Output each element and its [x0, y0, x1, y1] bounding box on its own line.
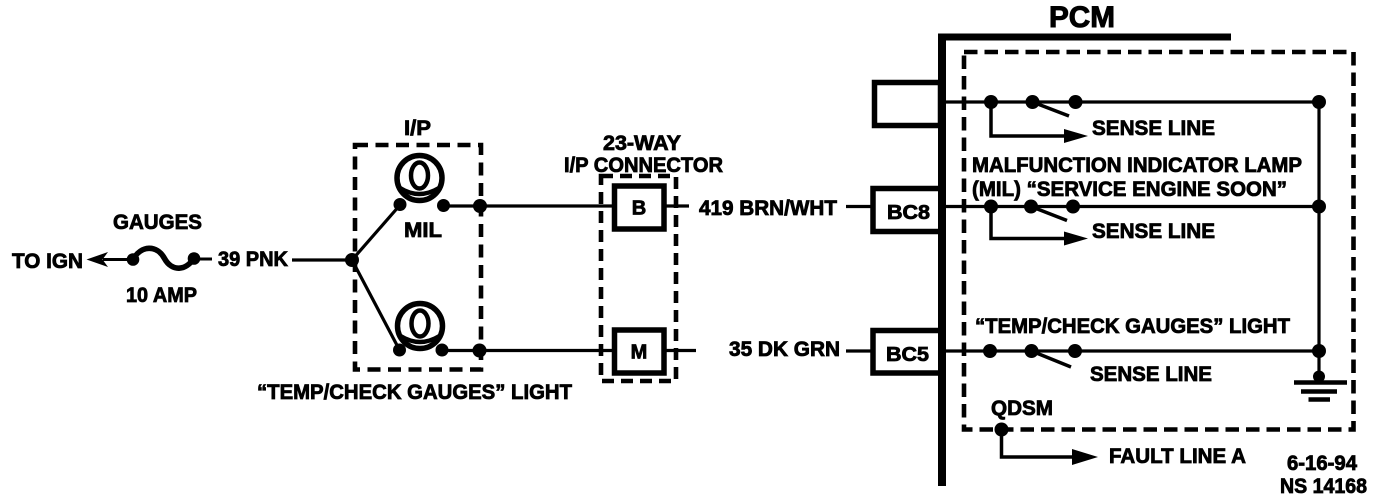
wire row 2 sense line — [942, 205, 1319, 208]
svg-text:FAULT LINE A: FAULT LINE A — [1109, 445, 1246, 468]
PCM inner dashed box — [964, 52, 1354, 430]
23-way I/P connector dashed box — [601, 176, 676, 381]
wire to BC8 — [846, 205, 872, 208]
wire row 3 sense line — [941, 349, 1319, 352]
svg-text:NS 14168: NS 14168 — [1280, 475, 1367, 498]
svg-text:“TEMP/CHECK GAUGES” LIGHT: “TEMP/CHECK GAUGES” LIGHT — [975, 315, 1290, 338]
arrow to IGN — [103, 258, 134, 261]
svg-text:SENSE LINE: SENSE LINE — [1090, 363, 1212, 386]
svg-text:M: M — [631, 342, 648, 364]
arrow sense line 2 — [991, 207, 1076, 239]
node on I/P box edge top — [473, 199, 487, 213]
svg-text:419 BRN/WHT: 419 BRN/WHT — [699, 197, 837, 220]
lamp MIL — [397, 156, 442, 201]
PCM case border top — [938, 34, 1231, 41]
svg-text:I/P: I/P — [404, 117, 431, 140]
node row1 a — [984, 95, 998, 109]
node row1 right — [1312, 95, 1326, 109]
node row1 c — [1069, 95, 1083, 109]
svg-text:GAUGES: GAUGES — [113, 211, 202, 234]
wire stub from B — [664, 204, 689, 207]
svg-text:TO IGN: TO IGN — [12, 250, 83, 273]
PCM case border left — [938, 34, 946, 487]
svg-text:SENSE LINE: SENSE LINE — [1092, 117, 1215, 140]
svg-text:BC5: BC5 — [886, 344, 929, 366]
svg-text:(MIL) “SERVICE ENGINE SOON”: (MIL) “SERVICE ENGINE SOON” — [972, 178, 1287, 201]
node QDSM on dashed box — [995, 423, 1009, 437]
terminal M box — [615, 330, 665, 373]
node row2 b — [1024, 200, 1038, 214]
svg-text:39 PNK: 39 PNK — [218, 248, 288, 271]
lamp TEMP/CHECK GAUGES — [398, 304, 443, 349]
svg-text:“TEMP/CHECK GAUGES” LIGHT: “TEMP/CHECK GAUGES” LIGHT — [257, 381, 572, 404]
connector cavity box top left of PCM — [875, 83, 941, 126]
node row3 c — [1068, 344, 1082, 358]
wire gauges lamp to M terminal — [442, 349, 614, 352]
switch blade row3 — [1032, 351, 1072, 367]
terminal BC5 box — [873, 331, 942, 374]
node splice junction — [345, 253, 359, 267]
ground — [1313, 371, 1325, 383]
svg-text:SENSE LINE: SENSE LINE — [1092, 220, 1215, 243]
node row3 right — [1312, 344, 1326, 358]
wire stub after fuse — [200, 258, 212, 261]
svg-text:10 AMP: 10 AMP — [126, 284, 197, 307]
terminal B box — [615, 186, 665, 229]
wire to BC5 — [846, 349, 872, 352]
wire 39 PNK to junction — [292, 258, 352, 261]
svg-text:I/P CONNECTOR: I/P CONNECTOR — [564, 154, 723, 177]
wire MIL lamp to B terminal — [444, 204, 615, 207]
wire stub from M — [664, 349, 696, 352]
svg-text:QDSM: QDSM — [991, 397, 1053, 420]
switch blade row1 — [1033, 102, 1070, 116]
svg-text:35 DK GRN: 35 DK GRN — [729, 338, 840, 361]
svg-text:MALFUNCTION INDICATOR LAMP: MALFUNCTION INDICATOR LAMP — [972, 154, 1302, 177]
node on I/P box edge bottom — [473, 344, 487, 358]
node row2 c — [1066, 200, 1080, 214]
node row2 right — [1312, 200, 1326, 214]
arrow fault line A — [1002, 430, 1077, 458]
wire right bus vertical — [1317, 102, 1320, 379]
fuse F1 GAUGES 10 AMP — [127, 253, 140, 266]
wire junction to MIL lamp — [352, 205, 400, 260]
arrow sense line 1 — [991, 102, 1076, 136]
terminal BC8 box — [873, 189, 942, 232]
svg-text:B: B — [632, 198, 646, 220]
wire junction to gauges lamp — [352, 260, 400, 350]
svg-text:PCM: PCM — [1049, 1, 1115, 34]
svg-text:23-WAY: 23-WAY — [603, 132, 681, 155]
switch blade row2 — [1031, 207, 1067, 221]
svg-text:6-16-94: 6-16-94 — [1287, 452, 1357, 475]
wire row 1 sense line — [940, 100, 1319, 103]
node row2 a — [984, 200, 998, 214]
svg-text:MIL: MIL — [404, 219, 442, 242]
I/P dashed box — [355, 145, 481, 370]
node row3 a — [983, 344, 997, 358]
svg-text:BC8: BC8 — [887, 202, 930, 224]
node row1 b — [1026, 95, 1040, 109]
node row3 b — [1025, 344, 1039, 358]
